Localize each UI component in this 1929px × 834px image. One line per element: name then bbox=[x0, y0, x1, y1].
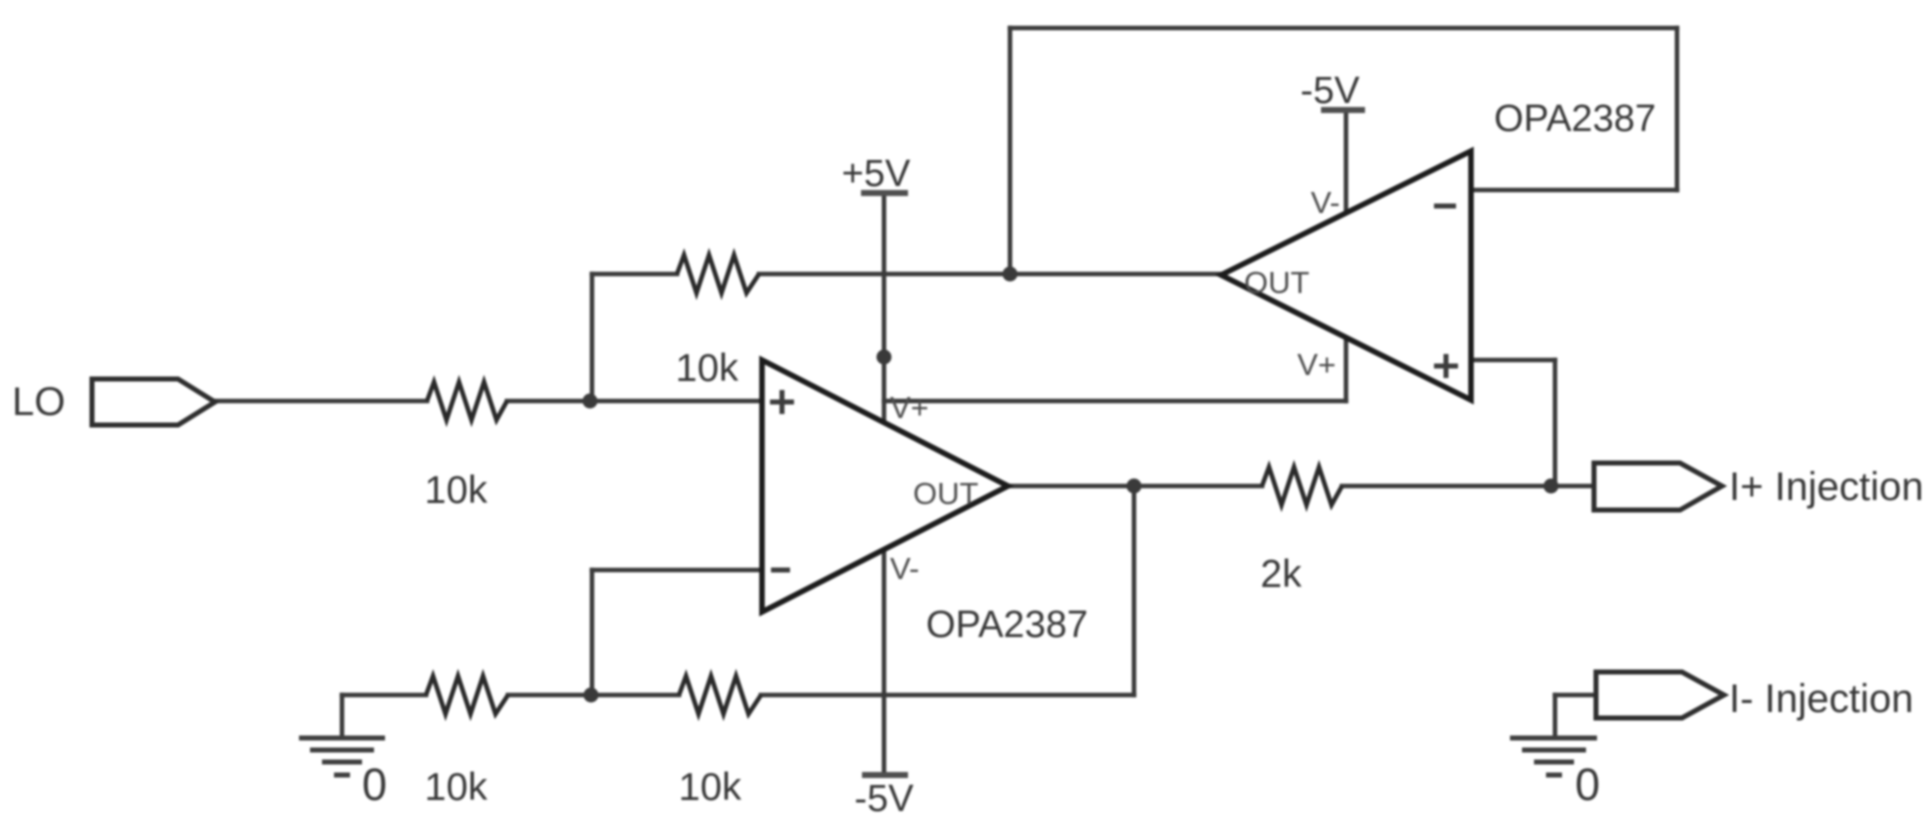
svg-text:0: 0 bbox=[362, 759, 387, 810]
wire bottom row between resistors bbox=[508, 693, 679, 698]
svg-text:-5V: -5V bbox=[854, 778, 914, 820]
port LO bbox=[92, 379, 215, 425]
resistor R2 10k feedback bbox=[677, 255, 759, 293]
ground right bbox=[1510, 738, 1597, 775]
wire U1 V- pin to -5V bbox=[882, 550, 887, 775]
svg-text:2k: 2k bbox=[1260, 553, 1302, 596]
wire inverting input row bbox=[592, 568, 762, 573]
junction inverting node bbox=[584, 688, 599, 703]
wire bottom row left lead bbox=[342, 693, 426, 698]
wire U2 out node up to top frame bbox=[1008, 28, 1013, 274]
op-amp U1 OPA2387 bbox=[762, 360, 1008, 612]
junction node A bbox=[583, 394, 598, 409]
svg-text:10k: 10k bbox=[679, 766, 742, 809]
svg-text:10k: 10k bbox=[425, 469, 488, 512]
svg-text:10k: 10k bbox=[425, 766, 488, 809]
wire down to I+ node bbox=[1553, 360, 1558, 486]
wire LO to R1 bbox=[215, 399, 427, 404]
wire down to ground left bbox=[340, 695, 345, 738]
wire U2 V- pin stub from -5V bbox=[1344, 110, 1349, 213]
junction U2 out / frame bbox=[1003, 267, 1018, 282]
svg-text:10k: 10k bbox=[676, 347, 739, 390]
supply bar -5V bottom bbox=[862, 772, 908, 778]
wire feedback left lead bbox=[592, 272, 677, 277]
wire U1 output node down bbox=[1132, 486, 1137, 695]
wire +5V down to U1 V+ pin bbox=[882, 193, 887, 422]
wire U2 V+ pin stub bbox=[1344, 338, 1349, 401]
svg-text:V+: V+ bbox=[1297, 347, 1336, 382]
svg-text:V-: V- bbox=[1311, 185, 1340, 220]
svg-text:OUT: OUT bbox=[913, 476, 979, 511]
wire V+ rail to U2 V+ pin bbox=[884, 399, 1346, 404]
svg-text:-5V: -5V bbox=[1300, 70, 1360, 112]
junction U1 out bbox=[1127, 479, 1142, 494]
svg-text:0: 0 bbox=[1575, 759, 1600, 810]
U2 minus input mark bbox=[1434, 204, 1456, 209]
svg-text:V+: V+ bbox=[890, 390, 929, 425]
supply bar -5V top bbox=[1321, 107, 1365, 113]
resistor R3 2k output bbox=[1262, 467, 1342, 505]
supply bar +5V bbox=[861, 190, 908, 196]
wire R1 to node A bbox=[507, 399, 762, 404]
wire bottom row right segment bbox=[761, 693, 1134, 698]
wire I- ground stub bbox=[1553, 695, 1558, 738]
svg-text:OPA2387: OPA2387 bbox=[926, 604, 1088, 646]
svg-text:LO: LO bbox=[12, 380, 65, 424]
port I+ Injection bbox=[1594, 463, 1722, 510]
wire U2 noninverting input right bbox=[1471, 358, 1555, 363]
svg-text:I+ Injection: I+ Injection bbox=[1729, 465, 1924, 509]
wire to U2 inverting input bbox=[1471, 188, 1677, 193]
wire 2k to I+ port bbox=[1342, 484, 1594, 489]
svg-text:OPA2387: OPA2387 bbox=[1494, 98, 1656, 140]
U1 plus input mark bbox=[770, 390, 794, 414]
wire inverting node down bbox=[590, 570, 595, 695]
resistor R1 10k input bbox=[427, 382, 507, 420]
svg-text:OUT: OUT bbox=[1244, 265, 1310, 300]
junction I+ node bbox=[1544, 479, 1559, 494]
op-amp U2 OPA2387 bbox=[1221, 151, 1471, 400]
junction V+ rail bbox=[877, 350, 892, 365]
wire U1 output to 2k bbox=[1008, 484, 1262, 489]
U2 plus input mark bbox=[1434, 354, 1458, 378]
wire top frame right vertical bbox=[1675, 28, 1680, 190]
wire I- port to ground bbox=[1555, 693, 1596, 698]
resistor R4 10k bottom right bbox=[679, 676, 761, 714]
wire feedback right lead to U2 output bbox=[759, 272, 1221, 277]
ground left bbox=[299, 738, 385, 775]
resistor R5 10k bottom left bbox=[426, 676, 508, 714]
wire node A up to feedback row bbox=[590, 274, 595, 401]
svg-text:V-: V- bbox=[890, 551, 919, 586]
wire top frame horizontal bbox=[1010, 26, 1677, 31]
U1 minus input mark bbox=[771, 568, 790, 573]
svg-text:I- Injection: I- Injection bbox=[1729, 677, 1914, 721]
port I- Injection bbox=[1596, 672, 1724, 718]
svg-text:+5V: +5V bbox=[842, 153, 911, 195]
